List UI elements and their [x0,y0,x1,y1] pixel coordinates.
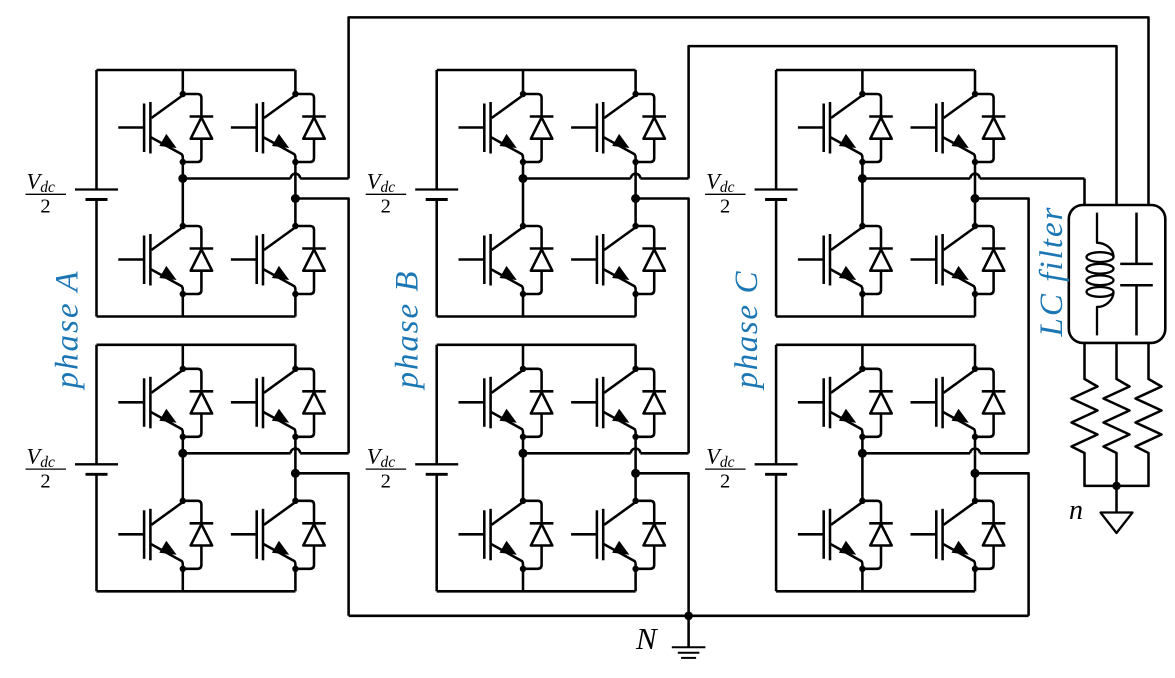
battery V_dc/2 C1 [775,70,778,190]
transistor S4 B1 (IGBT, right bottom) [571,223,639,294]
svg-text:Vdc: Vdc [367,169,396,197]
svg-text:phase A: phase A [50,271,86,391]
H-bridge C1 frame bottom rail [776,315,975,318]
node A2 right-leg midpoint [291,469,300,478]
wire phase A to neutral rail [295,473,348,616]
diode D4 B2 [632,501,666,572]
wire C2 right leg segments [974,345,977,369]
wire A1 left leg segments [182,70,185,94]
label V_dc/2 C1 [705,169,746,218]
diode D1 C2 [859,369,893,440]
battery V_dc/2 B1 [435,70,438,190]
transistor S1 A1 (IGBT, left top) [118,91,186,162]
H-bridge C1 frame top rail [776,69,975,72]
wire phase B cascade (bridge1 to bridge2) [636,199,689,454]
svg-text:phase B: phase B [390,272,426,391]
svg-text:2: 2 [720,196,730,218]
diode D3 C1 [972,94,1006,165]
transistor S2 C1 (IGBT, left bottom) [798,223,866,294]
diode D2 A2 [180,501,214,572]
battery V_dc/2 A1 [95,70,98,190]
H-bridge B1 frame top rail [437,69,636,72]
diode D4 B1 [632,226,666,297]
transistor S2 B2 (IGBT, left bottom) [459,498,527,569]
battery V_dc/2 B2 [435,345,438,465]
H-bridge B2 frame bottom rail [437,590,636,593]
diode D2 C2 [859,501,893,572]
wire phase B to neutral rail [636,473,689,616]
wire B2 left leg segments [522,345,525,369]
transistor S3 C2 (IGBT, right top) [911,366,979,437]
wire hop phase C output over right leg [970,174,980,179]
node C2 left-leg midpoint [858,449,867,458]
wire C2 left leg segments [861,345,864,369]
wire phase A cascade (bridge1 to bridge2) [295,199,348,454]
wire B1 right leg segments [634,70,637,94]
wire B1 left leg segments [522,70,525,94]
transistor S4 B2 (IGBT, right bottom) [571,498,639,569]
wire A1 right leg segments [294,70,297,94]
svg-text:Vdc: Vdc [27,169,56,197]
transistor S1 C2 (IGBT, left top) [798,366,866,437]
wire hop phase B cascade over right leg [631,448,641,453]
label V_dc/2 B1 [366,169,407,218]
transistor S2 C2 (IGBT, left bottom) [798,498,866,569]
H-bridge A1 frame bottom rail [97,315,296,318]
node B2 left-leg midpoint [519,449,528,458]
node C1 right-leg midpoint [971,194,980,203]
transistor S1 B2 (IGBT, left top) [459,366,527,437]
node N junction [684,612,693,621]
wire phase C cascade (bridge1 to bridge2) [975,199,1029,454]
wire B2 right leg segments [634,345,637,369]
node A1 right-leg midpoint [291,194,300,203]
diode D3 B1 [632,94,666,165]
transistor S2 A1 (IGBT, left bottom) [118,223,186,294]
diode D4 A1 [292,226,326,297]
diode D3 A2 [292,369,326,440]
battery V_dc/2 C2 [775,345,778,465]
resistor R3 (load) [1117,343,1162,486]
transistor S1 C1 (IGBT, left top) [798,91,866,162]
svg-text:N: N [635,621,659,656]
label V_dc/2 B2 [366,444,407,493]
wire hop phase B output over right leg [631,174,641,179]
node B1 right-leg midpoint [631,194,640,203]
transistor S4 C1 (IGBT, right bottom) [911,223,979,294]
diode D2 C1 [859,226,893,297]
svg-text:phase C: phase C [729,271,765,391]
svg-text:n: n [1069,495,1083,526]
node B1 left-leg midpoint [519,174,528,183]
diode D1 C1 [859,94,893,165]
svg-text:2: 2 [40,196,50,218]
svg-text:Vdc: Vdc [367,444,396,472]
diode D2 B1 [520,226,554,297]
H-bridge A2 frame bottom rail [97,590,296,593]
diode D3 A1 [292,94,326,165]
transistor S4 C2 (IGBT, right bottom) [911,498,979,569]
svg-text:2: 2 [381,196,391,218]
transistor S3 A2 (IGBT, right top) [231,366,299,437]
diode D2 B2 [520,501,554,572]
inductor L (filter) [1087,213,1114,336]
svg-text:2: 2 [40,470,50,492]
battery V_dc/2 A2 [95,345,98,465]
H-bridge A2 frame top rail [97,344,296,347]
node C1 left-leg midpoint [858,174,867,183]
node n junction [1112,482,1120,490]
diode D3 B2 [632,369,666,440]
label V_dc/2 A1 [26,169,67,218]
ground symbol at N [687,616,690,648]
diode D1 B2 [520,369,554,440]
svg-text:2: 2 [720,470,730,492]
transistor S3 C1 (IGBT, right top) [911,91,979,162]
svg-text:Vdc: Vdc [27,444,56,472]
wire hop phase A cascade over right leg [291,448,301,453]
diode D1 B1 [520,94,554,165]
node A2 left-leg midpoint [178,449,187,458]
label V_dc/2 C2 [705,444,746,493]
diode D3 C2 [972,369,1006,440]
wire A2 left leg segments [182,345,185,369]
wire neutral rail N [349,615,1029,618]
transistor S1 A2 (IGBT, left top) [118,366,186,437]
diode D2 A1 [180,226,214,297]
diode D1 A1 [180,94,214,165]
diode D4 A2 [292,501,326,572]
svg-text:Vdc: Vdc [706,444,735,472]
transistor S1 B1 (IGBT, left top) [459,91,527,162]
wire C1 left leg segments [861,70,864,94]
diode D4 C2 [972,501,1006,572]
H-bridge A1 frame top rail [97,69,296,72]
wire hop phase A output over right leg [291,174,301,179]
transistor S3 B2 (IGBT, right top) [571,366,639,437]
svg-text:Vdc: Vdc [706,169,735,197]
wire phase A output to LC filter (top rail) [183,177,349,180]
transistor S3 A1 (IGBT, right top) [231,91,299,162]
diode D4 C1 [972,226,1006,297]
svg-text:2: 2 [381,470,391,492]
H-bridge C2 frame top rail [776,344,975,347]
node B2 right-leg midpoint [631,469,640,478]
resistor R1 (load) [1072,343,1117,486]
wire n to ground arrow [1115,486,1118,513]
wire hop phase C cascade over right leg [970,448,980,453]
LC filter box [1069,205,1166,343]
svg-text:LC filter: LC filter [1034,207,1070,337]
H-bridge B2 frame top rail [437,344,636,347]
H-bridge C2 frame bottom rail [776,590,975,593]
H-bridge B1 frame bottom rail [437,315,636,318]
capacitor C (filter) [1120,213,1153,336]
transistor S4 A1 (IGBT, right bottom) [231,223,299,294]
transistor S4 A2 (IGBT, right bottom) [231,498,299,569]
diode D1 A2 [180,369,214,440]
label V_dc/2 A2 [26,444,67,493]
transistor S2 A2 (IGBT, left bottom) [118,498,186,569]
transistor S2 B1 (IGBT, left bottom) [459,223,527,294]
wire phase C to neutral rail [975,473,1029,616]
wire C1 right leg segments [974,70,977,94]
ground (open arrow) at n [1101,513,1133,534]
wire A2 right leg segments [294,345,297,369]
node C2 right-leg midpoint [971,469,980,478]
resistor R2 (load) [1104,343,1130,486]
transistor S3 B1 (IGBT, right top) [571,91,639,162]
wire phase C output to LC filter [862,177,1084,180]
node A1 left-leg midpoint [178,174,187,183]
wire phase B output to LC filter (second rail) [523,177,689,180]
